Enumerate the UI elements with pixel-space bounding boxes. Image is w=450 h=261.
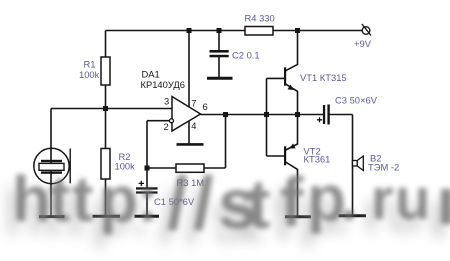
- svg-text:КР140УД6: КР140УД6: [141, 79, 185, 90]
- wire C1 bottom lead: [146, 194, 148, 216]
- resistor R2: [101, 149, 110, 180]
- svg-text:t: t: [247, 165, 270, 243]
- capacitor C3: [317, 105, 330, 125]
- svg-text:p: p: [99, 163, 138, 235]
- capacitor C2: [210, 50, 229, 57]
- svg-text::: :: [137, 163, 158, 235]
- resistor R4: [245, 27, 273, 36]
- svg-text:C3 50×6V: C3 50×6V: [335, 95, 378, 106]
- wire R2 branch down to ground: [105, 109, 107, 216]
- svg-text:+9V: +9V: [354, 38, 372, 49]
- svg-text:R4 330: R4 330: [245, 13, 275, 24]
- node junction rail-VT1 collector: [295, 28, 300, 33]
- terminal +9V: [362, 24, 371, 36]
- svg-text:DA1: DA1: [142, 69, 160, 80]
- wire VT2 base stub: [267, 155, 285, 157]
- node junction rail-C2: [217, 28, 222, 33]
- wire VT2 collector: [285, 162, 298, 216]
- capacitor C1: [136, 181, 158, 194]
- svg-text:7: 7: [191, 98, 196, 109]
- watermark http://stfp.ru: [12, 162, 450, 245]
- svg-text:3: 3: [164, 96, 169, 107]
- node junction input R1/R2: [103, 106, 108, 111]
- svg-text:h: h: [12, 163, 51, 235]
- transistor Q VT1 base bar: [284, 67, 286, 85]
- node junction output-feedback: [223, 112, 228, 117]
- resistor R1: [101, 57, 110, 85]
- wire C1 top lead: [146, 168, 148, 188]
- node junction output-base line: [264, 112, 269, 117]
- ground op-amp pin4: [177, 143, 204, 146]
- svg-text:.: .: [340, 162, 358, 234]
- svg-text:4: 4: [191, 120, 196, 131]
- wire microphone branch down to ground: [50, 109, 52, 216]
- ground VT2: [285, 215, 311, 218]
- svg-text:f: f: [280, 163, 304, 241]
- svg-text:r: r: [371, 167, 394, 232]
- wire top supply rail: [106, 30, 363, 32]
- wire pin2 input: [147, 121, 170, 168]
- svg-text:6: 6: [203, 101, 208, 112]
- node junction pin2-R3-C1: [145, 166, 150, 171]
- microphone B1: [34, 148, 70, 183]
- wire R3 row: [147, 167, 226, 169]
- svg-text:VT1 КТ315: VT1 КТ315: [300, 72, 347, 83]
- wire transistor base line: [266, 78, 268, 156]
- ground C2: [207, 77, 233, 80]
- wire feedback vertical: [225, 115, 227, 169]
- transistor Q VT2 base bar: [284, 146, 286, 165]
- svg-text:u: u: [395, 167, 430, 232]
- ground speaker: [339, 214, 367, 217]
- svg-text:/: /: [193, 162, 214, 245]
- wire VT1 base stub: [267, 77, 285, 79]
- transistor VT1 emitter arrow: [288, 85, 295, 90]
- wire op-amp output rail: [201, 114, 324, 116]
- wire VT2 emitter: [285, 115, 298, 151]
- wire speaker branch to ground: [352, 115, 354, 216]
- ground C1: [135, 215, 160, 218]
- svg-text:R1: R1: [84, 59, 96, 70]
- svg-text:/: /: [167, 162, 188, 245]
- svg-text:C2 0.1: C2 0.1: [232, 50, 260, 61]
- ground microphone: [39, 215, 65, 218]
- wire C3 right lead: [330, 114, 353, 116]
- ground R2: [93, 215, 121, 218]
- svg-text:100k: 100k: [79, 69, 100, 80]
- resistor R3: [176, 164, 204, 172]
- node junction rail-pin7: [187, 28, 192, 33]
- node junction output-emitters: [295, 112, 300, 117]
- watermark shadow: [4, 175, 444, 258]
- speaker B2: [353, 156, 364, 171]
- wire VT1 collector: [285, 31, 298, 72]
- wire pin7 to rail: [188, 31, 190, 108]
- wire C2 top lead: [218, 31, 220, 51]
- wire C2 bottom lead: [218, 57, 220, 78]
- svg-text:2: 2: [164, 121, 169, 132]
- wire R1 drop from rail: [105, 31, 107, 109]
- svg-text:t: t: [72, 163, 93, 235]
- op-amp inverting input bubble: [170, 119, 174, 123]
- op-amp DA1: [172, 97, 201, 132]
- svg-text:t: t: [49, 163, 70, 235]
- wire pin4 to ground: [188, 121, 190, 145]
- wire VT1 emitter: [285, 84, 298, 115]
- transistor VT2 emitter arrow: [289, 144, 296, 149]
- wire input rail to pin3: [51, 108, 172, 110]
